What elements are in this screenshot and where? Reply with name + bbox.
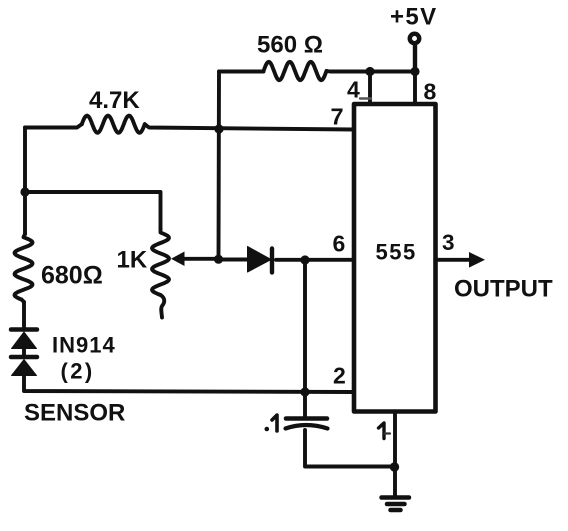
- wire 680 to diode D1: [22, 302, 26, 327]
- svg-text:3: 3: [442, 230, 455, 255]
- wire cap to ground rail: [305, 430, 394, 467]
- svg-text:+5V: +5V: [390, 4, 438, 31]
- junction left node: [20, 187, 29, 196]
- junction pin4 top rail: [365, 67, 374, 76]
- diode D1 IN914: [11, 330, 37, 349]
- wire pin 3 output: [437, 258, 472, 262]
- wire pin 8 stub: [413, 72, 417, 104]
- label .1: [265, 415, 278, 431]
- wire +5V stub: [413, 45, 417, 72]
- svg-text:4: 4: [347, 77, 360, 103]
- junction pin6 cap: [300, 255, 309, 264]
- wire pin 4 stub: [368, 72, 372, 104]
- diode D3: [248, 247, 273, 273]
- wire left vertical: [23, 128, 27, 235]
- wire pin 2 sensor net: [24, 375, 354, 392]
- +5V terminal: [410, 34, 419, 43]
- resistor 560 ohm: [264, 62, 327, 80]
- pin 4 tick: [360, 97, 371, 99]
- svg-text:4.7K: 4.7K: [89, 87, 140, 114]
- svg-text:(2): (2): [61, 359, 95, 384]
- wire top rail: [219, 69, 415, 73]
- junction pin8 top rail: [410, 67, 419, 76]
- svg-text:555: 555: [376, 240, 417, 265]
- resistor 4.7K: [82, 116, 145, 133]
- junction ground rail: [390, 462, 399, 471]
- wire wiper to diode D3: [219, 258, 251, 262]
- wire D1 to D2: [22, 348, 26, 356]
- diode D2 IN914: [11, 357, 37, 376]
- label pin 1: [379, 423, 391, 439]
- pot wiper arrow: [171, 252, 219, 267]
- wire pin 6: [276, 258, 354, 262]
- capacitor C1 top plate: [286, 416, 327, 421]
- wire pin 1: [393, 412, 397, 496]
- svg-text:OUTPUT: OUTPUT: [454, 276, 553, 303]
- resistor 680 ohm: [15, 234, 33, 302]
- capacitor C1 bottom plate: [286, 425, 328, 429]
- svg-text:6: 6: [333, 231, 346, 257]
- svg-text:8: 8: [424, 79, 437, 105]
- svg-text:IN914: IN914: [52, 333, 116, 358]
- potentiometer 1K: [152, 229, 169, 296]
- output arrowhead: [469, 252, 485, 268]
- svg-text:7: 7: [331, 104, 344, 130]
- svg-text:560 Ω: 560 Ω: [257, 32, 323, 59]
- svg-text:2: 2: [333, 363, 346, 389]
- svg-text:1K: 1K: [117, 247, 148, 274]
- wire threshold vertical: [217, 72, 221, 260]
- wire cap vertical: [303, 260, 307, 416]
- ground: [382, 498, 410, 511]
- junction pin2 cap: [300, 387, 309, 396]
- svg-text:680Ω: 680Ω: [41, 262, 103, 290]
- op IC U1 555 box: [354, 104, 436, 412]
- wire node to pot top: [25, 192, 161, 229]
- junction wiper vertical: [214, 255, 223, 264]
- wire pin 7 net: [25, 124, 354, 129]
- junction 4.7K rail: [214, 124, 223, 133]
- svg-text:SENSOR: SENSOR: [24, 400, 125, 427]
